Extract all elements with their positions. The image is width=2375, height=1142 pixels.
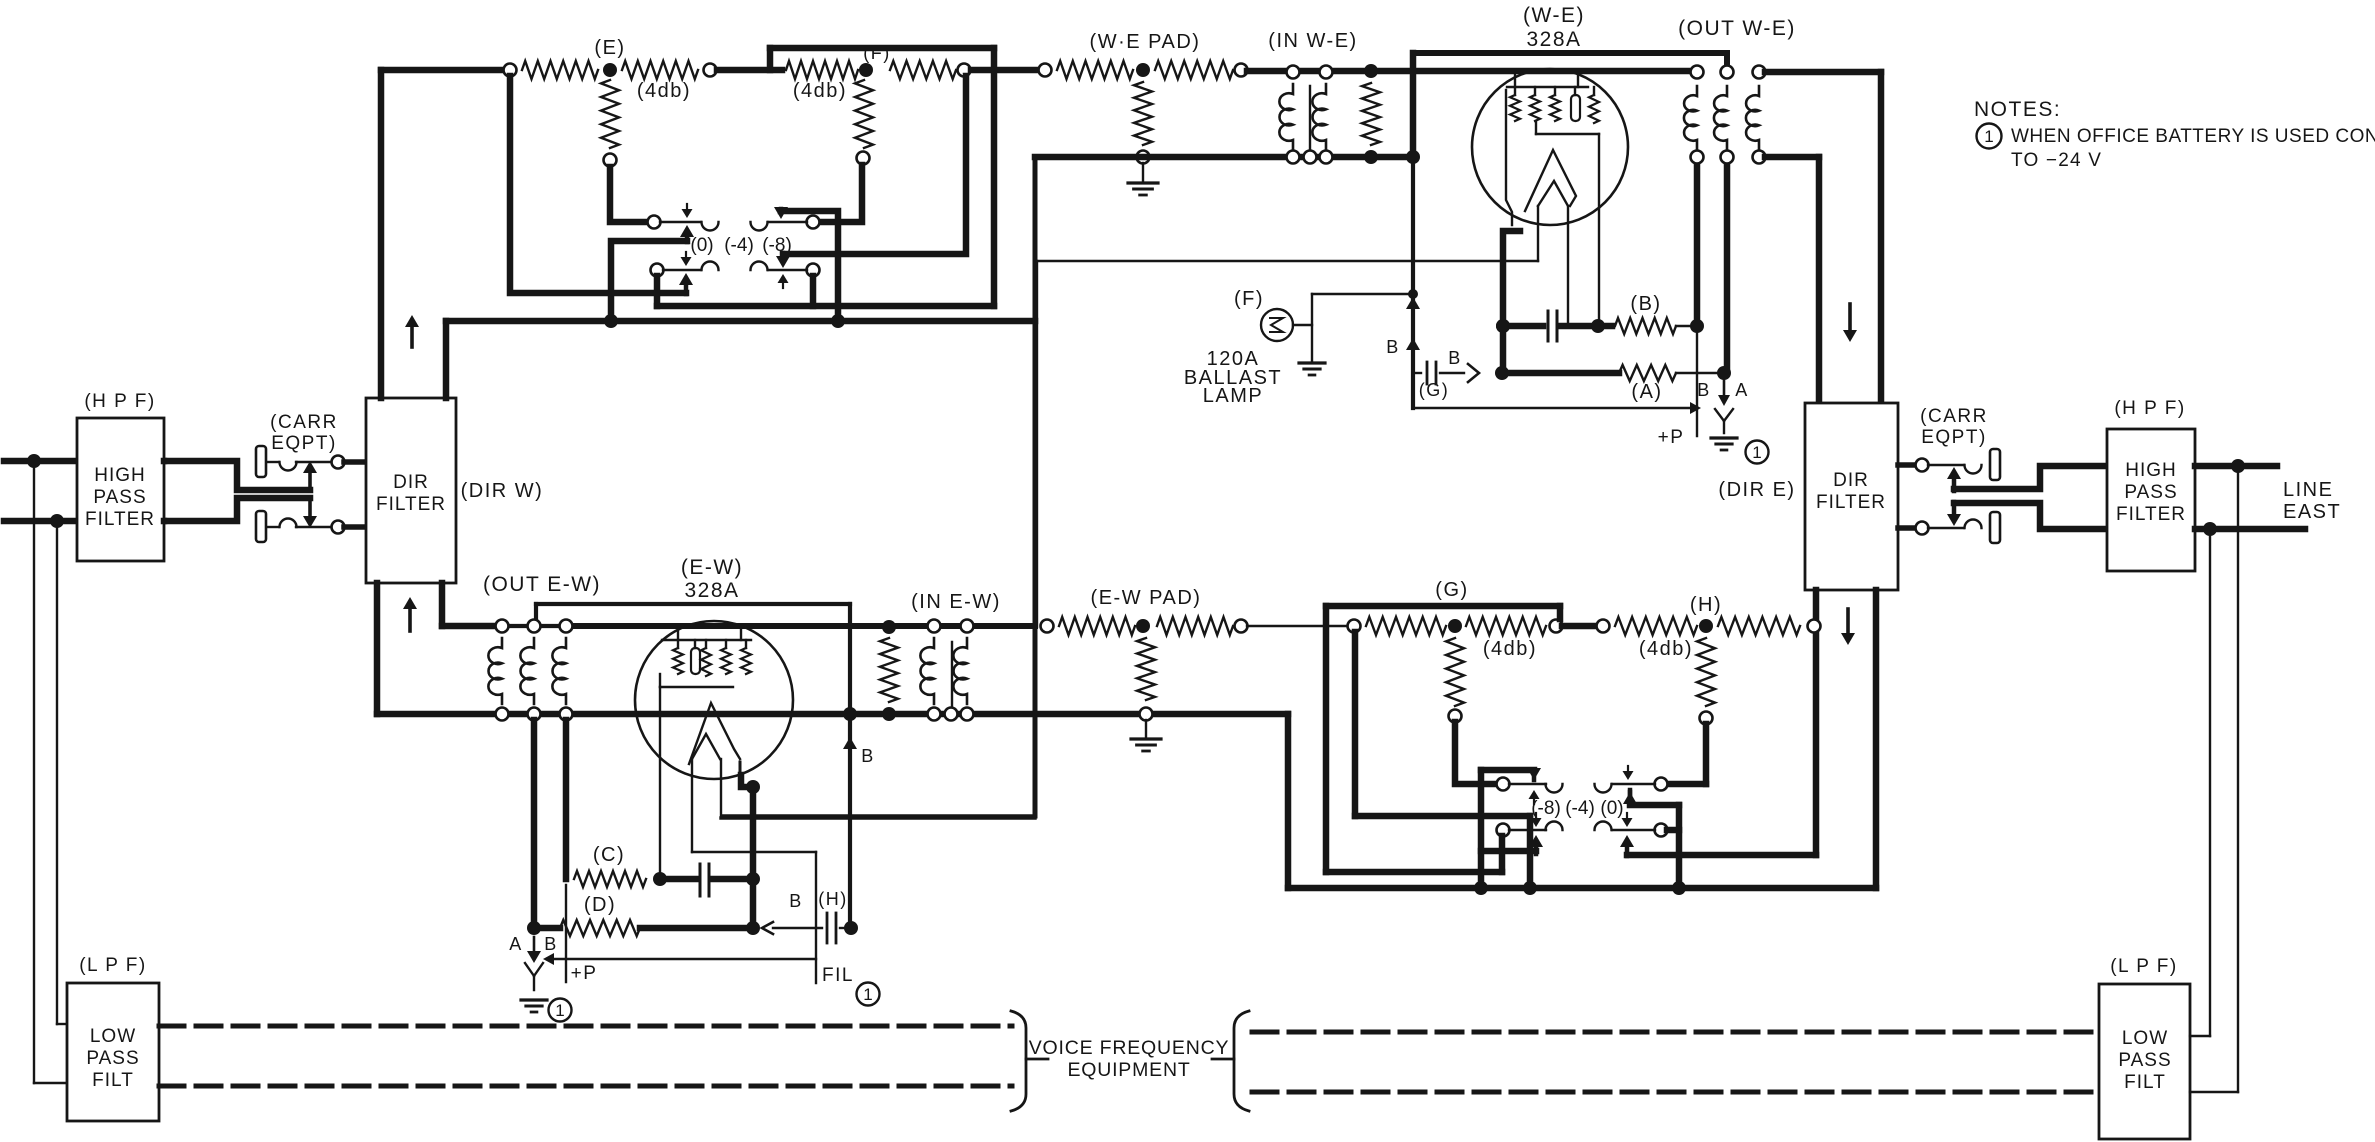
svg-text:(H): (H) [1690,594,1722,616]
svg-text:(B): (B) [1630,293,1661,315]
svg-text:(A): (A) [1631,381,1662,403]
svg-text:(G): (G) [1419,380,1450,400]
svg-text:A: A [509,934,523,954]
svg-text:(4db): (4db) [1483,638,1537,660]
svg-text:(H P F): (H P F) [84,391,155,412]
svg-text:(0): (0) [1600,798,1623,819]
svg-text:EQPT): EQPT) [1921,427,1987,448]
svg-text:B: B [1386,337,1400,357]
svg-text:LAMP: LAMP [1203,385,1263,407]
svg-text:HIGH: HIGH [2125,460,2177,481]
svg-text:B: B [544,934,558,954]
svg-text:FILTER: FILTER [2116,504,2186,525]
svg-text:(IN E-W): (IN E-W) [911,591,1001,613]
svg-text:(CARR: (CARR [270,412,338,433]
svg-text:(-4): (-4) [724,235,754,256]
svg-text:VOICE FREQUENCY: VOICE FREQUENCY [1029,1037,1230,1059]
svg-text:(CARR: (CARR [1920,406,1988,427]
svg-text:+P: +P [1658,427,1685,448]
svg-text:EAST: EAST [2283,501,2341,523]
svg-text:LOW: LOW [90,1026,136,1047]
svg-text:EQUIPMENT: EQUIPMENT [1067,1059,1190,1081]
svg-text:B: B [861,746,875,766]
svg-text:FILTER: FILTER [376,494,446,515]
svg-text:(D): (D) [584,894,616,916]
svg-text:B: B [789,891,803,911]
svg-text:(DIR E): (DIR E) [1718,479,1795,501]
svg-text:FILT: FILT [92,1070,134,1091]
svg-text:WHEN OFFICE BATTERY IS USED CO: WHEN OFFICE BATTERY IS USED CONNECT [2011,126,2375,147]
svg-text:(OUT E-W): (OUT E-W) [483,573,601,596]
svg-text:DIR: DIR [393,472,429,493]
svg-text:DIR: DIR [1833,470,1869,491]
svg-text:NOTES:: NOTES: [1974,98,2061,121]
svg-text:1: 1 [1752,443,1761,462]
svg-text:(0): (0) [690,235,713,256]
svg-text:(G): (G) [1435,579,1468,601]
svg-text:HIGH: HIGH [94,465,146,486]
svg-text:FILTER: FILTER [1816,492,1886,513]
svg-text:FILT: FILT [2124,1072,2166,1093]
svg-text:(4db): (4db) [793,80,847,102]
svg-text:(C): (C) [593,844,625,866]
svg-text:(H): (H) [818,889,848,909]
svg-text:(W·E PAD): (W·E PAD) [1090,31,1201,53]
svg-text:(IN W-E): (IN W-E) [1268,30,1357,52]
svg-text:1: 1 [1984,127,1993,146]
svg-text:+P: +P [571,963,598,984]
svg-text:328A: 328A [1526,28,1581,51]
svg-text:PASS: PASS [2118,1050,2171,1071]
svg-text:PASS: PASS [86,1048,139,1069]
svg-text:328A: 328A [684,579,739,602]
svg-text:(4db): (4db) [1639,638,1693,660]
svg-text:(F): (F) [1234,288,1264,310]
svg-text:B: B [1697,380,1711,400]
svg-text:PASS: PASS [2124,482,2177,503]
svg-text:FILTER: FILTER [85,509,155,530]
svg-text:(L P F): (L P F) [2110,956,2178,977]
svg-text:(W-E): (W-E) [1523,4,1585,27]
svg-text:(E): (E) [594,37,625,59]
svg-text:(L P F): (L P F) [79,955,147,976]
svg-text:B: B [1448,348,1462,368]
svg-text:(H P F): (H P F) [2114,398,2185,419]
svg-text:1: 1 [863,985,872,1004]
svg-text:(E-W PAD): (E-W PAD) [1091,587,1202,609]
svg-text:TO −24 V: TO −24 V [2011,150,2102,171]
svg-text:(-4): (-4) [1565,798,1595,819]
svg-text:(OUT W-E): (OUT W-E) [1678,17,1796,40]
svg-text:LINE: LINE [2283,479,2333,501]
svg-text:A: A [1735,380,1749,400]
svg-text:LOW: LOW [2122,1028,2168,1049]
svg-text:(DIR W): (DIR W) [461,480,544,502]
svg-text:EQPT): EQPT) [271,433,337,454]
svg-text:(4db): (4db) [637,80,691,102]
svg-text:PASS: PASS [93,487,146,508]
svg-text:(E-W): (E-W) [681,556,743,579]
svg-text:FIL: FIL [822,965,854,986]
svg-text:1: 1 [555,1001,564,1020]
